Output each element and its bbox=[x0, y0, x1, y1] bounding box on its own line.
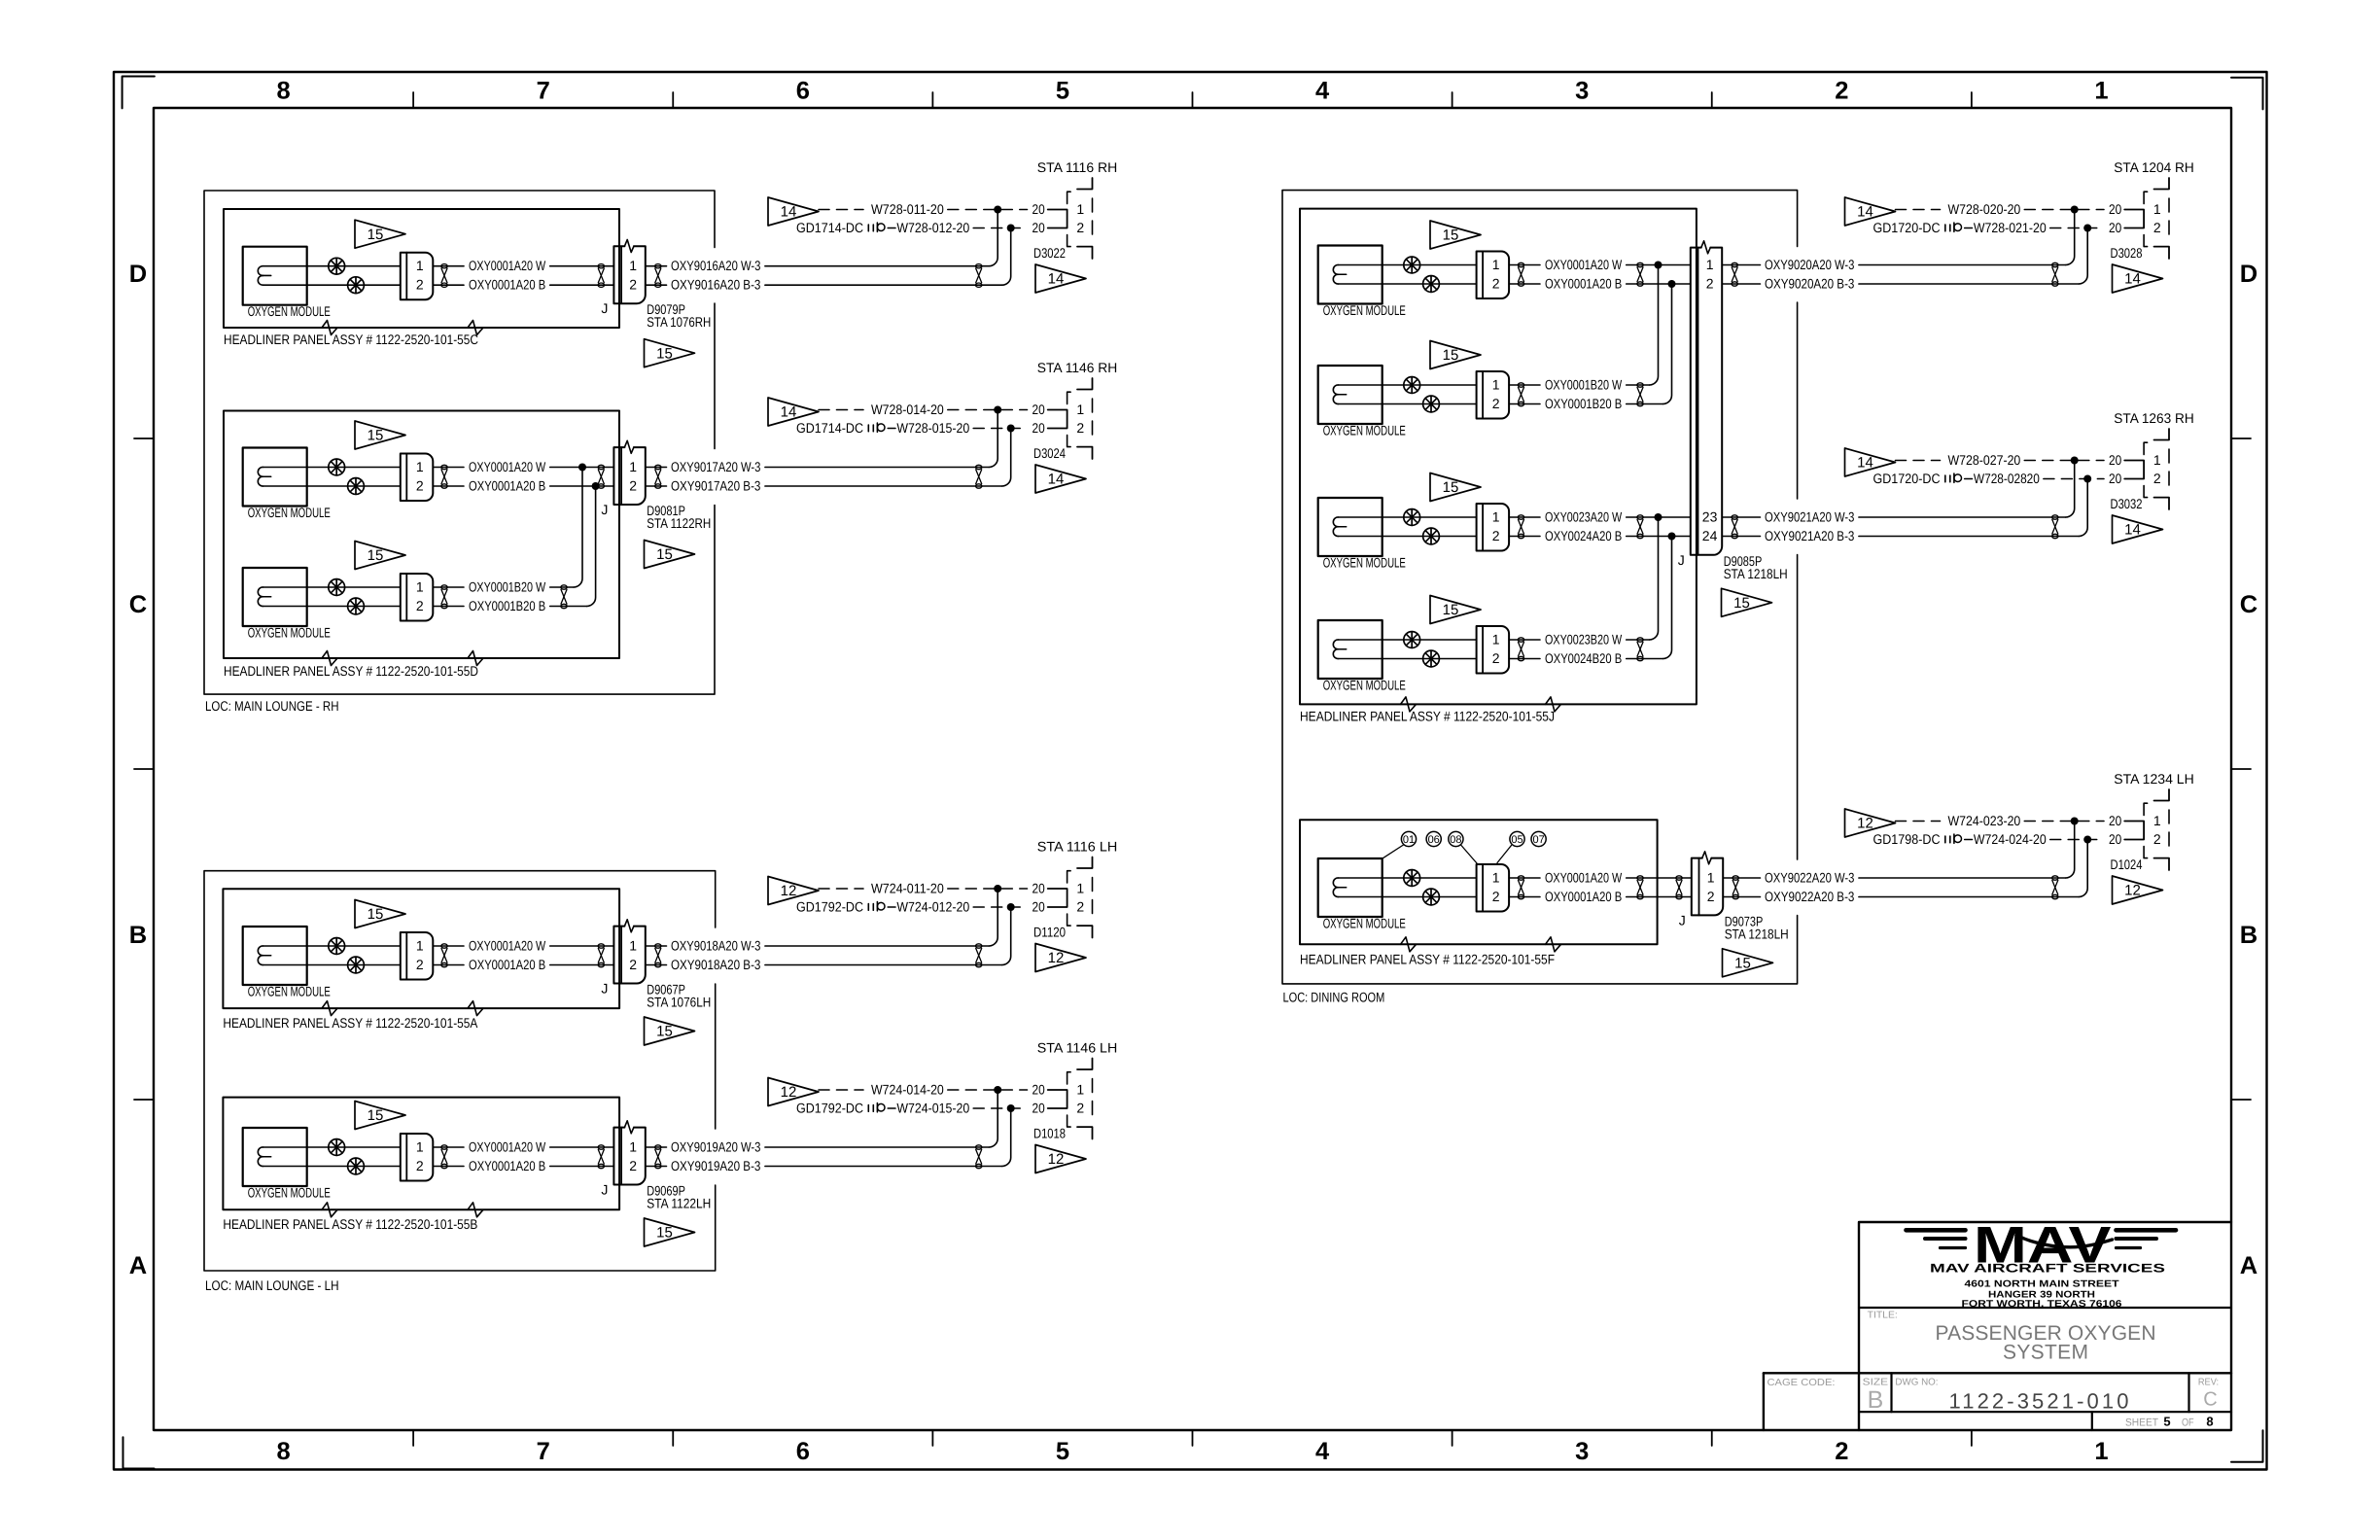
svg-text:7: 7 bbox=[537, 1438, 550, 1465]
break mark on 55B box (2) bbox=[468, 1203, 483, 1217]
svg-text:GD1714-DC: GD1714-DC bbox=[796, 220, 863, 235]
break mark on 55C box (2) bbox=[468, 321, 483, 335]
station D1018 lower flag 12 bbox=[1035, 1145, 1086, 1173]
svg-text:OXYGEN MODULE: OXYGEN MODULE bbox=[1323, 678, 1406, 693]
svg-text:GD1792-DC: GD1792-DC bbox=[796, 1100, 863, 1115]
svg-text:OXYGEN MODULE: OXYGEN MODULE bbox=[248, 625, 331, 641]
oxygen module 55J-3 box bbox=[1318, 498, 1382, 556]
wire label OXY0001A20 B bbox=[433, 284, 464, 286]
svg-text:MAV AIRCRAFT SERVICES: MAV AIRCRAFT SERVICES bbox=[1930, 1262, 2165, 1276]
svg-text:TITLE:: TITLE: bbox=[1868, 1311, 1898, 1321]
junction dot row 1 bbox=[2071, 818, 2079, 825]
svg-text:W728-012-20: W728-012-20 bbox=[896, 220, 969, 235]
leader line from balloon 08 bbox=[1461, 846, 1478, 864]
svg-text:J: J bbox=[601, 300, 608, 316]
svg-text:2: 2 bbox=[1835, 78, 1848, 105]
splice symbol on B wire bbox=[348, 478, 365, 495]
wire to J connector (W) bbox=[1627, 877, 1692, 879]
svg-text:STA 1076LH: STA 1076LH bbox=[647, 995, 711, 1010]
svg-text:J: J bbox=[601, 1182, 608, 1198]
wire OXY0001A20 B bbox=[263, 964, 401, 966]
station connector D1024 shell corners bbox=[2154, 789, 2170, 801]
connector D9079P (J) bbox=[613, 246, 645, 303]
wire to pin 24 with junction dot bbox=[1627, 536, 1691, 538]
group box LOC: DINING ROOM bbox=[1282, 191, 1798, 984]
svg-text:15: 15 bbox=[367, 428, 384, 444]
svg-text:20: 20 bbox=[2109, 813, 2121, 828]
svg-text:OXYGEN MODULE: OXYGEN MODULE bbox=[1323, 916, 1406, 931]
station connector D3024 mating half (dashed) bbox=[1067, 392, 1071, 403]
module connector pins 1-2 bbox=[401, 454, 434, 502]
flag note 15 bbox=[1430, 341, 1481, 369]
svg-text:20: 20 bbox=[1032, 1100, 1045, 1115]
station D3024 lower flag 14 bbox=[1035, 465, 1086, 493]
svg-text:1: 1 bbox=[1492, 257, 1500, 272]
group box LOC: MAIN LOUNGE - RH bbox=[204, 191, 715, 694]
wire bend up to D1024 pin 2 bbox=[2079, 840, 2087, 897]
break mark on 55C box bbox=[322, 321, 337, 335]
svg-text:4: 4 bbox=[1315, 1438, 1330, 1465]
wire OXY0024A20 B bbox=[1339, 536, 1477, 538]
oxygen module 55F element glyph bbox=[1333, 878, 1346, 888]
twisted pair mark bbox=[1518, 876, 1523, 899]
svg-text:STA 1116 LH: STA 1116 LH bbox=[1037, 839, 1118, 855]
twisted pair mark at panel edge bbox=[1637, 876, 1643, 899]
MAV logo wing bars right bbox=[2117, 1228, 2177, 1233]
wire label OXY9019A20 B-3 bbox=[646, 1166, 667, 1168]
splice symbol on W wire bbox=[329, 1139, 345, 1156]
svg-text:1: 1 bbox=[1492, 631, 1500, 647]
flag 15 below D9067P bbox=[645, 1017, 695, 1045]
svg-text:OXY0023A20 W: OXY0023A20 W bbox=[1545, 508, 1623, 524]
svg-text:W724-011-20: W724-011-20 bbox=[871, 880, 944, 895]
svg-text:14: 14 bbox=[781, 404, 797, 421]
svg-text:OXY0024B20 B: OXY0024B20 B bbox=[1545, 650, 1622, 666]
splice symbol on W wire bbox=[329, 579, 345, 596]
wire label OXY9016A20 B-3 bbox=[646, 284, 667, 286]
svg-text:20: 20 bbox=[1032, 201, 1045, 217]
junction dot row 1 bbox=[994, 885, 1001, 892]
svg-text:OXY9017A20 W-3: OXY9017A20 W-3 bbox=[671, 459, 761, 474]
junction dot row 2 bbox=[1007, 903, 1015, 911]
station connector D1120 mating half (dashed) bbox=[1067, 871, 1071, 883]
oxygen module 55J-1 element glyph bbox=[1333, 264, 1346, 274]
svg-text:1: 1 bbox=[2153, 452, 2161, 468]
twisted pair mark after J bbox=[1732, 876, 1738, 899]
svg-text:OXY0001A20 W: OXY0001A20 W bbox=[469, 937, 546, 953]
svg-text:14: 14 bbox=[1857, 455, 1873, 472]
splice symbol on B wire bbox=[348, 598, 365, 614]
flag note 15 bbox=[355, 542, 405, 570]
svg-text:2: 2 bbox=[629, 1158, 637, 1173]
svg-text:OXY0001A20 B: OXY0001A20 B bbox=[469, 477, 545, 493]
svg-text:8: 8 bbox=[2206, 1415, 2213, 1429]
oxygen module 55F box bbox=[1318, 858, 1382, 917]
svg-text:GD1720-DC: GD1720-DC bbox=[1873, 471, 1941, 486]
svg-text:OXY0023B20 W: OXY0023B20 W bbox=[1545, 631, 1623, 647]
svg-text:D3032: D3032 bbox=[2111, 496, 2143, 511]
svg-text:6: 6 bbox=[796, 78, 810, 105]
headliner panel assy 55C box bbox=[224, 209, 619, 328]
flag note 15 bbox=[355, 900, 405, 928]
svg-text:1: 1 bbox=[2094, 1438, 2108, 1465]
wire OXY0023B20 B bend up to junction bbox=[1627, 658, 1663, 660]
wire OXY0001A20 B bbox=[1339, 896, 1477, 898]
svg-text:1: 1 bbox=[2153, 201, 2161, 217]
splice symbol on W wire bbox=[329, 258, 345, 274]
svg-text:6: 6 bbox=[796, 1438, 810, 1465]
svg-text:OXY0001B20 W: OXY0001B20 W bbox=[1545, 376, 1623, 392]
svg-text:STA 1146 RH: STA 1146 RH bbox=[1037, 360, 1118, 375]
item balloon 01 bbox=[1401, 831, 1416, 846]
wire OXY0001B20 B bbox=[263, 606, 401, 608]
wire OXY0001A20 B bbox=[263, 485, 401, 487]
svg-text:2: 2 bbox=[416, 598, 424, 613]
oxygen module 55D-1 element glyph bbox=[258, 467, 270, 476]
wire W728-027-20 bbox=[1896, 460, 1941, 462]
wire bend up to D3024 pin 1 bbox=[989, 410, 997, 468]
svg-text:W728-027-20: W728-027-20 bbox=[1948, 452, 2021, 468]
splice symbol on B wire bbox=[348, 1158, 365, 1174]
wire OXY0023A20 W bbox=[1339, 516, 1477, 518]
break mark on 55D box (2) bbox=[468, 651, 483, 666]
svg-text:W724-012-20: W724-012-20 bbox=[896, 898, 969, 914]
wire bend up to D3022 pin 1 bbox=[989, 210, 997, 266]
svg-text:STA 1218LH: STA 1218LH bbox=[1725, 926, 1789, 941]
wire label OXY0001B20 W bbox=[1509, 384, 1540, 386]
svg-text:OXY9017A20 B-3: OXY9017A20 B-3 bbox=[671, 477, 761, 493]
svg-text:1: 1 bbox=[1707, 869, 1715, 885]
oxygen module 55D-2 element glyph bbox=[258, 587, 270, 597]
break mark on 55A box (2) bbox=[468, 1001, 483, 1016]
svg-text:GD1720-DC: GD1720-DC bbox=[1873, 220, 1941, 235]
oxygen module 55J-4 box bbox=[1318, 620, 1382, 679]
title block title section divider bbox=[1764, 1372, 2231, 1374]
connector D9073P (J) bbox=[1692, 858, 1723, 916]
svg-text:1: 1 bbox=[1706, 257, 1714, 272]
svg-text:LOC: MAIN LOUNGE - LH: LOC: MAIN LOUNGE - LH bbox=[205, 1277, 339, 1293]
svg-text:DWG NO:: DWG NO: bbox=[1895, 1378, 1938, 1388]
twisted pair mark before bend bbox=[561, 585, 567, 609]
wire bend up to D1018 pin 1 bbox=[989, 1090, 997, 1147]
station connector D3032 mating half (dashed) bbox=[2144, 442, 2148, 454]
dwg row divider bbox=[1860, 1411, 2231, 1413]
svg-text:2: 2 bbox=[416, 277, 424, 293]
svg-text:20: 20 bbox=[1032, 880, 1045, 895]
svg-text:OXYGEN MODULE: OXYGEN MODULE bbox=[1323, 555, 1406, 571]
svg-text:OXY0001A20 B: OXY0001A20 B bbox=[469, 957, 545, 972]
svg-text:05: 05 bbox=[1511, 834, 1522, 846]
svg-text:OXY0001A20 W: OXY0001A20 W bbox=[469, 1138, 546, 1154]
twisted pair mark after J bbox=[655, 264, 661, 288]
svg-text:1: 1 bbox=[1492, 869, 1500, 885]
junction dot row 2 bbox=[2083, 225, 2091, 232]
station connector D1024 flag 12 bbox=[1845, 809, 1896, 837]
svg-text:GD1714-DC: GD1714-DC bbox=[796, 420, 863, 436]
svg-text:14: 14 bbox=[1857, 204, 1873, 221]
svg-text:2: 2 bbox=[1492, 396, 1500, 411]
svg-text:B: B bbox=[2240, 922, 2257, 949]
svg-text:OXY0001A20 W: OXY0001A20 W bbox=[469, 258, 546, 273]
item balloon 08 bbox=[1449, 831, 1463, 846]
svg-text:15: 15 bbox=[367, 547, 384, 564]
wire to pin 1 with junction dot bbox=[1627, 264, 1691, 266]
wire bend up to D3022 pin 2 bbox=[1002, 228, 1011, 286]
wire to pin 2 with junction dot bbox=[1627, 283, 1691, 285]
svg-text:06: 06 bbox=[1428, 834, 1440, 846]
wire to J connector (W) bbox=[550, 265, 614, 267]
svg-text:20: 20 bbox=[2109, 471, 2121, 486]
junction dot row 2 bbox=[2083, 836, 2091, 844]
wire OXY0001B20 W bend up to junction bbox=[1627, 384, 1650, 386]
zone ticks top bbox=[412, 92, 414, 108]
junction dot row 2 bbox=[1007, 1104, 1015, 1112]
junction dot row 2 bbox=[1007, 225, 1015, 232]
station connector D3028 pin bracket bbox=[2124, 210, 2144, 228]
leader line from balloon 01 bbox=[1383, 845, 1404, 857]
junction dot row 1 bbox=[2071, 457, 2079, 465]
svg-text:W724-024-20: W724-024-20 bbox=[1974, 831, 2047, 847]
twisted pair mark before J bbox=[598, 264, 604, 288]
twisted pair mark bbox=[441, 465, 447, 488]
junction dot row 1 bbox=[994, 206, 1001, 214]
twisted pair mark before station bbox=[976, 465, 982, 488]
oxygen module 55B box bbox=[243, 1128, 307, 1186]
svg-text:OXYGEN MODULE: OXYGEN MODULE bbox=[248, 303, 331, 319]
svg-text:15: 15 bbox=[1734, 956, 1751, 972]
svg-text:W728-015-20: W728-015-20 bbox=[896, 420, 969, 436]
junction dot on OXY0001A20 W bbox=[578, 464, 586, 472]
svg-text:2: 2 bbox=[1492, 650, 1500, 666]
wire OXY0001A20 B bbox=[263, 284, 401, 286]
oxygen module 55A element glyph bbox=[258, 946, 270, 956]
wire to J connector (W) bbox=[550, 1146, 614, 1148]
cage code box bbox=[1763, 1373, 1765, 1430]
twisted pair mark after J bbox=[655, 1145, 661, 1169]
wire W724-011-20 bbox=[819, 888, 863, 890]
MAV logo swoosh bbox=[2016, 1236, 2113, 1247]
svg-text:1: 1 bbox=[416, 1138, 424, 1154]
svg-text:12: 12 bbox=[1048, 950, 1065, 966]
svg-text:7: 7 bbox=[537, 78, 550, 105]
svg-text:2: 2 bbox=[1835, 1438, 1848, 1465]
svg-text:1: 1 bbox=[629, 258, 637, 273]
svg-text:OXYGEN MODULE: OXYGEN MODULE bbox=[248, 1185, 331, 1201]
wire to J connector (W) bbox=[550, 945, 614, 947]
break mark on 55B box bbox=[322, 1203, 337, 1217]
wire label OXY9021A20 B-3 bbox=[1722, 536, 1760, 538]
svg-text:J: J bbox=[1678, 552, 1685, 568]
zone ticks bottom bbox=[412, 1430, 414, 1446]
wire label OXY0024A20 B bbox=[1509, 536, 1540, 538]
corner trim mark bottom-right bbox=[2231, 1430, 2263, 1462]
module connector pins 1-2 bbox=[401, 1134, 434, 1181]
wire OXY0001B20 B bend up to junction bbox=[1627, 403, 1663, 405]
oxygen module 55A box bbox=[243, 927, 307, 985]
svg-text:20: 20 bbox=[1032, 420, 1045, 436]
headliner panel assy 55F box bbox=[1300, 820, 1658, 944]
junction dot row 1 bbox=[994, 406, 1001, 414]
break mark on 55F box bbox=[1401, 937, 1417, 952]
station D3028 lower flag 14 bbox=[2113, 264, 2163, 293]
svg-text:4: 4 bbox=[1315, 78, 1330, 105]
svg-text:HEADLINER PANEL ASSY # 1122-25: HEADLINER PANEL ASSY # 1122-2520-101-55D bbox=[224, 663, 478, 679]
svg-text:1: 1 bbox=[416, 937, 424, 953]
station connector D3028 mating half (dashed) bbox=[2144, 192, 2148, 203]
svg-text:1: 1 bbox=[2153, 813, 2161, 828]
connector D9081P (J) bbox=[613, 447, 645, 505]
break mark on 55D box bbox=[322, 651, 337, 666]
station D1024 lower flag 12 bbox=[2113, 876, 2163, 904]
station connector D1120 shell corners bbox=[1077, 857, 1093, 869]
svg-text:5: 5 bbox=[1056, 78, 1069, 105]
station connector D3032 flag 14 bbox=[1845, 448, 1896, 476]
station connector D3022 flag 14 bbox=[768, 197, 819, 226]
station connector D3022 pin bracket bbox=[1048, 210, 1067, 228]
svg-text:12: 12 bbox=[781, 1084, 797, 1101]
svg-text:B: B bbox=[1868, 1386, 1884, 1414]
splice symbol on W wire bbox=[329, 938, 345, 955]
svg-text:W728-020-20: W728-020-20 bbox=[1948, 201, 2021, 217]
svg-text:J: J bbox=[1679, 912, 1686, 927]
wire OXY0001A20 B bbox=[263, 1166, 401, 1168]
svg-text:J: J bbox=[601, 502, 608, 517]
svg-text:D: D bbox=[2240, 261, 2257, 288]
svg-text:W724-014-20: W724-014-20 bbox=[871, 1081, 944, 1097]
junction dot row 1 bbox=[2071, 206, 2079, 214]
oxygen module 55B element glyph bbox=[258, 1147, 270, 1157]
svg-text:A: A bbox=[2240, 1252, 2257, 1279]
twisted pair mark after D9085P rows 1-2 bbox=[1732, 262, 1737, 286]
module connector pins 1-2 bbox=[1477, 252, 1510, 299]
svg-text:LOC: MAIN LOUNGE - RH: LOC: MAIN LOUNGE - RH bbox=[205, 698, 339, 714]
svg-text:2: 2 bbox=[1076, 1100, 1084, 1115]
svg-text:20: 20 bbox=[2109, 452, 2121, 468]
title block outline bbox=[1859, 1222, 2231, 1430]
svg-text:20: 20 bbox=[1032, 220, 1045, 235]
svg-text:20: 20 bbox=[2109, 201, 2121, 217]
item balloon 06 bbox=[1426, 831, 1441, 846]
oxygen module 55J-2 element glyph bbox=[1333, 385, 1346, 395]
wire OXY0023B20 W bend up to junction bbox=[1627, 639, 1650, 641]
junction dot row 2 bbox=[1007, 425, 1015, 433]
svg-text:OXY0001A20 B: OXY0001A20 B bbox=[1545, 889, 1622, 904]
wire label OXY0001A20 W bbox=[433, 945, 464, 947]
wire OXY0001A20 W bbox=[263, 1146, 401, 1148]
svg-text:B: B bbox=[129, 922, 147, 949]
svg-text:2: 2 bbox=[1706, 275, 1714, 291]
svg-text:FORT WORTH, TEXAS 76106: FORT WORTH, TEXAS 76106 bbox=[1962, 1299, 2123, 1310]
item balloon 05 bbox=[1510, 831, 1524, 846]
svg-text:07: 07 bbox=[1532, 834, 1544, 846]
svg-text:GD1798-DC: GD1798-DC bbox=[1873, 831, 1941, 847]
splice symbol on W wire bbox=[1404, 870, 1420, 887]
svg-text:SHEET: SHEET bbox=[2125, 1417, 2158, 1429]
rev cell divider bbox=[2187, 1373, 2189, 1412]
wire W728-011-20 bbox=[819, 209, 863, 211]
svg-text:C: C bbox=[2203, 1389, 2217, 1411]
svg-text:STA 1076RH: STA 1076RH bbox=[647, 314, 711, 330]
flag 15 below D9081P bbox=[645, 541, 695, 569]
wire label OXY9020A20 B-3 bbox=[1722, 283, 1760, 285]
station connector D3022 shell corners bbox=[1077, 178, 1093, 190]
svg-text:HEADLINER PANEL ASSY # 1122-25: HEADLINER PANEL ASSY # 1122-2520-101-55J bbox=[1300, 709, 1555, 724]
wire label OXY9021A20 W-3 bbox=[1722, 516, 1760, 518]
connector D9069P (J) bbox=[613, 1128, 645, 1185]
splice symbol on W wire bbox=[1404, 632, 1420, 648]
twisted pair mark bbox=[441, 1145, 447, 1169]
wire bend up to D1024 pin 1 bbox=[2066, 822, 2075, 879]
svg-text:OXY0001A20 B: OXY0001A20 B bbox=[469, 1158, 545, 1173]
svg-text:OXY9019A20 B-3: OXY9019A20 B-3 bbox=[671, 1158, 761, 1173]
wire label OXY0023B20 W bbox=[1509, 639, 1540, 641]
wire bend up to D1120 pin 1 bbox=[989, 889, 997, 946]
svg-text:14: 14 bbox=[1048, 271, 1065, 288]
svg-text:STA 1218LH: STA 1218LH bbox=[1724, 566, 1788, 581]
group box LOC: MAIN LOUNGE - LH bbox=[204, 871, 716, 1271]
svg-text:2: 2 bbox=[1492, 275, 1500, 291]
wire OXY0001B20 B bend up to junction bbox=[550, 606, 587, 608]
svg-text:HEADLINER PANEL ASSY # 1122-25: HEADLINER PANEL ASSY # 1122-2520-101-55A bbox=[223, 1015, 478, 1031]
svg-text:1: 1 bbox=[1492, 508, 1500, 524]
svg-text:OXY9021A20 B-3: OXY9021A20 B-3 bbox=[1765, 528, 1855, 543]
svg-text:J: J bbox=[601, 981, 608, 997]
wire label OXY9017A20 B-3 bbox=[646, 485, 667, 487]
svg-text:01: 01 bbox=[1403, 834, 1415, 846]
svg-text:OXY9018A20 W-3: OXY9018A20 W-3 bbox=[671, 937, 761, 953]
twisted pair mark before connector bbox=[1637, 262, 1643, 286]
svg-text:STA 1116 RH: STA 1116 RH bbox=[1037, 159, 1118, 175]
svg-text:2: 2 bbox=[416, 477, 424, 493]
svg-text:1: 1 bbox=[416, 578, 424, 594]
oxygen module 55J-4 element glyph bbox=[1333, 640, 1346, 649]
splice symbol on B wire bbox=[348, 957, 365, 973]
corner trim mark bottom-left bbox=[123, 1437, 155, 1468]
junction dot row 2 bbox=[2083, 475, 2091, 483]
wire to J connector (W) bbox=[550, 467, 614, 469]
svg-text:OXY0001B20 B: OXY0001B20 B bbox=[1545, 396, 1622, 411]
svg-text:2: 2 bbox=[1492, 889, 1500, 904]
module connector pins 1-2 bbox=[1477, 626, 1510, 674]
svg-text:W728-02820: W728-02820 bbox=[1974, 471, 2040, 486]
wire bend up to D3024 pin 2 bbox=[1002, 429, 1011, 487]
twisted pair mark before bend bbox=[1637, 638, 1643, 661]
station connector D3024 pin bracket bbox=[1048, 410, 1067, 429]
twisted pair mark before J bbox=[598, 1145, 604, 1169]
svg-text:15: 15 bbox=[1443, 479, 1459, 496]
svg-text:OXY0001A20 B: OXY0001A20 B bbox=[469, 277, 545, 293]
svg-text:OXY0024A20 B: OXY0024A20 B bbox=[1545, 528, 1622, 543]
size cell divider bbox=[1890, 1373, 1892, 1412]
wire bend up to D3028 pin 1 bbox=[2066, 210, 2075, 265]
module connector pins 1-2 bbox=[1477, 371, 1510, 419]
svg-text:OXY0001B20 W: OXY0001B20 W bbox=[469, 578, 546, 594]
item balloon 07 bbox=[1531, 831, 1546, 846]
wire to J connector (B) bbox=[550, 964, 614, 966]
station D3022 lower flag 14 bbox=[1035, 264, 1086, 293]
break mark on 55J box (2) bbox=[1546, 697, 1561, 712]
svg-text:STA 1122RH: STA 1122RH bbox=[647, 515, 711, 531]
svg-text:OXY9022A20 B-3: OXY9022A20 B-3 bbox=[1765, 889, 1855, 904]
svg-text:24: 24 bbox=[1702, 528, 1718, 543]
wire OXY0001B20 B bbox=[1339, 403, 1477, 405]
svg-text:D1024: D1024 bbox=[2111, 857, 2143, 872]
svg-text:14: 14 bbox=[781, 204, 797, 221]
svg-text:OXYGEN MODULE: OXYGEN MODULE bbox=[1323, 302, 1406, 318]
svg-text:REV:: REV: bbox=[2198, 1377, 2219, 1387]
svg-text:D: D bbox=[129, 261, 147, 288]
splice symbol on W wire bbox=[329, 459, 345, 475]
